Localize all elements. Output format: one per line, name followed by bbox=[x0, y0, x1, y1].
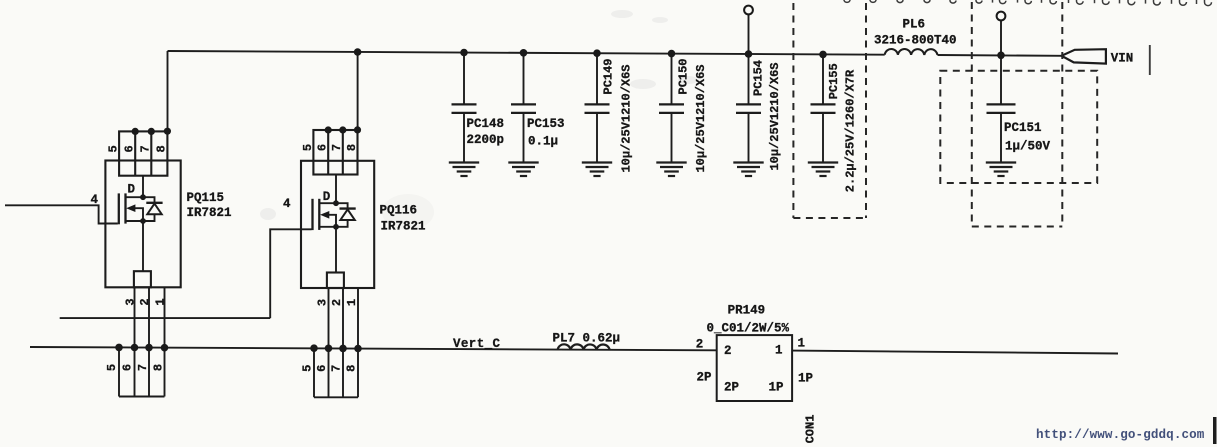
svg-text:2: 2 bbox=[330, 299, 344, 306]
svg-text:1: 1 bbox=[345, 299, 359, 306]
svg-text:2: 2 bbox=[696, 337, 704, 351]
svg-text:PQ116: PQ116 bbox=[380, 204, 418, 218]
svg-text:8: 8 bbox=[345, 144, 359, 151]
svg-text:8: 8 bbox=[152, 364, 166, 371]
svg-text:2P: 2P bbox=[697, 371, 712, 385]
svg-text:PC154: PC154 bbox=[752, 60, 766, 96]
svg-text:PL6: PL6 bbox=[903, 18, 926, 32]
svg-text:4: 4 bbox=[91, 193, 99, 207]
svg-text:2.2μ/25V/1260/X7R: 2.2μ/25V/1260/X7R bbox=[844, 69, 858, 192]
svg-text:1P: 1P bbox=[798, 372, 813, 386]
svg-text:PL7 0.62μ: PL7 0.62μ bbox=[553, 332, 621, 346]
svg-text:D: D bbox=[323, 190, 331, 204]
svg-text:7: 7 bbox=[329, 365, 343, 372]
svg-text:4: 4 bbox=[283, 197, 291, 211]
svg-text:1: 1 bbox=[798, 337, 806, 351]
svg-text:6: 6 bbox=[316, 144, 330, 151]
svg-text:5: 5 bbox=[105, 364, 119, 371]
svg-text:7: 7 bbox=[139, 145, 153, 152]
svg-text:0_C01/2W/5%: 0_C01/2W/5% bbox=[707, 322, 790, 336]
svg-text:2200p: 2200p bbox=[467, 133, 505, 147]
svg-text:3: 3 bbox=[124, 298, 138, 305]
svg-text:2P: 2P bbox=[724, 381, 739, 395]
svg-text:6: 6 bbox=[123, 145, 137, 152]
svg-text:5: 5 bbox=[300, 365, 314, 372]
svg-text:VIN: VIN bbox=[1111, 52, 1134, 66]
svg-text:6: 6 bbox=[121, 364, 135, 371]
svg-text:3216-800T40: 3216-800T40 bbox=[874, 34, 957, 48]
svg-text:5: 5 bbox=[106, 145, 120, 152]
svg-text:PC150: PC150 bbox=[677, 58, 691, 94]
svg-text:1μ/50V: 1μ/50V bbox=[1005, 140, 1051, 154]
svg-text:PC149: PC149 bbox=[602, 58, 616, 94]
svg-text:PQ115: PQ115 bbox=[187, 191, 225, 205]
svg-text:IR7821: IR7821 bbox=[381, 220, 426, 234]
svg-text:8: 8 bbox=[155, 145, 169, 152]
svg-text:7: 7 bbox=[136, 364, 150, 371]
svg-text:2: 2 bbox=[138, 298, 152, 305]
svg-text:10μ/25V1210/X6S: 10μ/25V1210/X6S bbox=[694, 64, 708, 172]
svg-text:CON1: CON1 bbox=[804, 415, 818, 444]
svg-text:6: 6 bbox=[315, 365, 329, 372]
svg-text:8: 8 bbox=[344, 365, 358, 372]
svg-text:7: 7 bbox=[330, 144, 344, 151]
svg-text:D: D bbox=[128, 183, 136, 197]
svg-text:3: 3 bbox=[316, 299, 330, 306]
svg-text:IR7821: IR7821 bbox=[187, 206, 232, 220]
svg-text:PR149: PR149 bbox=[728, 304, 766, 318]
svg-text:Vert_C: Vert_C bbox=[453, 337, 501, 351]
svg-text:2: 2 bbox=[724, 344, 732, 358]
svg-text:1: 1 bbox=[154, 298, 168, 305]
svg-text:10μ/25V1210/X6S: 10μ/25V1210/X6S bbox=[768, 62, 782, 170]
svg-text:1P: 1P bbox=[769, 381, 784, 395]
svg-text:10μ/25V1210/X6S: 10μ/25V1210/X6S bbox=[620, 64, 634, 172]
svg-text:0.1μ: 0.1μ bbox=[528, 135, 558, 149]
svg-text:PC153: PC153 bbox=[527, 117, 565, 131]
svg-text:PC155: PC155 bbox=[827, 63, 841, 99]
svg-text:PC148: PC148 bbox=[467, 117, 505, 131]
svg-text:PC151: PC151 bbox=[1004, 121, 1042, 135]
svg-text:5: 5 bbox=[301, 144, 315, 151]
svg-text:1: 1 bbox=[775, 344, 783, 358]
